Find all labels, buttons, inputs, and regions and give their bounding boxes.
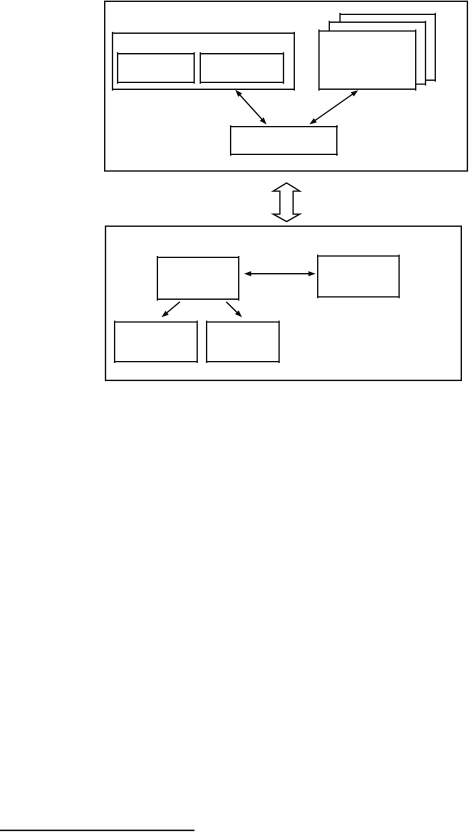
footnote separator rule: [0, 829, 195, 831]
double-headed arrow: container to center box: [235, 90, 266, 125]
top section frame: [105, 1, 468, 171]
arrow to bottom middle box: [226, 302, 242, 317]
bottom right box: [318, 255, 399, 299]
arrow to bottom left box: [162, 302, 180, 317]
center box of top section: [231, 125, 338, 156]
bottom section frame: [106, 226, 462, 380]
bottom middle box: [207, 321, 280, 363]
stacked document front: [319, 30, 416, 91]
inner box B: [200, 52, 283, 84]
double-headed arrow: documents stack to center box: [309, 90, 358, 124]
hollow vertical double arrow between sections: [273, 183, 300, 222]
bottom top-center box: [157, 256, 238, 301]
inner box A: [118, 52, 195, 84]
container box (top-left group): [113, 32, 295, 91]
stacked document back: [340, 13, 435, 82]
stacked document middle: [329, 21, 425, 86]
bottom left box: [115, 321, 198, 363]
horizontal double-headed arrow between bottom boxes: [244, 271, 316, 276]
